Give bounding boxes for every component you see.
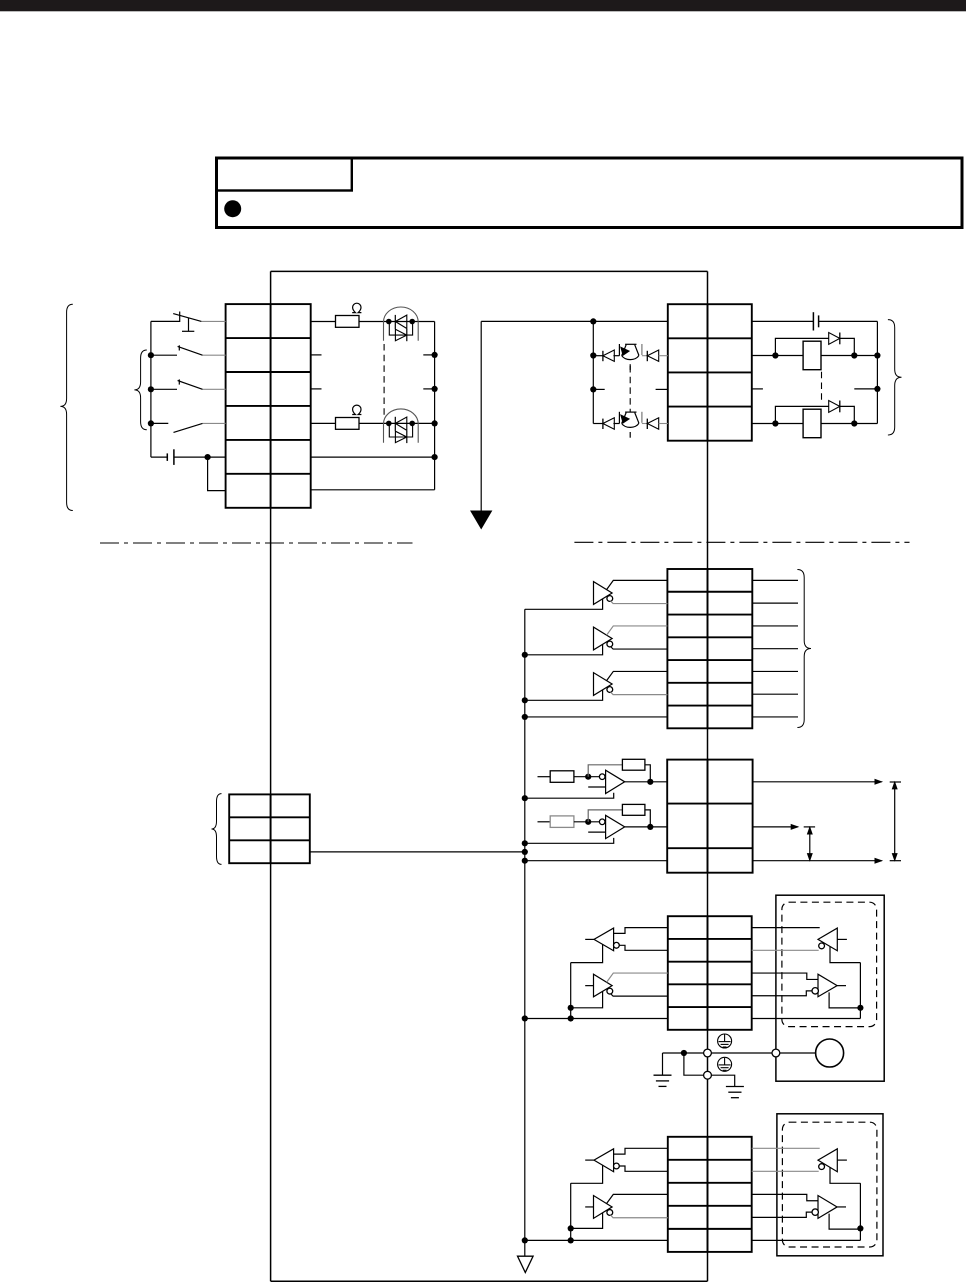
signal common bus (vertical): [524, 609, 526, 1256]
junction dot load r2: [874, 352, 880, 358]
PE terminal symbol 1: [718, 1034, 732, 1048]
rs2 left vertical: [570, 1183, 572, 1240]
label R2 ohm: [352, 405, 361, 414]
output common vertical: [592, 321, 594, 423]
switch LSN tick: [178, 379, 180, 384]
junction dot bus LG2: [522, 858, 528, 864]
junction dot rs1 c: [857, 1005, 863, 1011]
internal bus right vertical: [434, 322, 436, 490]
opto-coupler PC1: [384, 307, 419, 341]
junction dot rs2 a: [568, 1225, 574, 1231]
relay RA2 with diode: [752, 401, 878, 438]
switch SON blade: [174, 423, 203, 432]
wire LSP left: [151, 354, 177, 356]
wire out r4 b: [613, 423, 619, 425]
rs2 right vertical: [859, 1183, 861, 1240]
load bus vertical: [876, 321, 878, 423]
driver SDP/SDN: [571, 973, 668, 1008]
dashed continuation (outputs): [629, 366, 631, 412]
diode D2 (clamp): [646, 351, 648, 361]
wire LSP to block: [203, 354, 226, 356]
junction dot out r2: [590, 352, 596, 358]
wire out r4 c: [642, 423, 647, 425]
terminal block CN3 analog: [667, 760, 752, 873]
PE terminal symbol 2: [718, 1057, 732, 1071]
arrow LG: [875, 858, 882, 863]
CN3 row line 2: [667, 847, 752, 849]
junction dot bus rs2: [522, 1237, 528, 1243]
terminal block CN2 comm (5 rows): [668, 1137, 752, 1252]
brace output devices: [888, 320, 902, 435]
junction dot PE: [681, 1050, 687, 1056]
servo amplifier outline right wire: [707, 271, 709, 1281]
junction dot r5: [432, 454, 438, 460]
wire out r2 c: [642, 355, 647, 357]
terminal block CN1B (output): [668, 304, 752, 441]
wire MO2 out: [753, 826, 798, 828]
stub encoder row2 right: [752, 602, 798, 604]
arrow MO1: [875, 780, 882, 785]
junction dot common: [148, 420, 154, 426]
connector pin PE1: [704, 1049, 712, 1057]
junction dot load r3: [874, 386, 880, 392]
junction dot bus LB: [522, 652, 528, 658]
battery negative plate: [166, 453, 168, 461]
dashed continuation (loads): [821, 372, 823, 401]
stub encoder row1 right: [752, 579, 798, 581]
receiver RDP/RDN: [571, 928, 668, 963]
output transistor Q2: [619, 412, 642, 438]
battery 24V plate short: [818, 315, 820, 327]
diode D3 (clamp): [602, 419, 604, 429]
stub encoder row4 right: [752, 648, 798, 650]
note box title cell: [217, 158, 352, 191]
arrow MO2: [791, 825, 798, 830]
wire SON left: [151, 422, 168, 424]
stub out r3 left: [593, 388, 604, 390]
wire MO1 out: [753, 781, 882, 783]
wire EMG left: [151, 320, 180, 322]
stub row2 to bus: [423, 354, 434, 356]
wire to earth 1: [662, 1053, 664, 1075]
separation dash-dot line right: [574, 541, 909, 543]
wire LSN left: [151, 388, 177, 390]
receiver 2 RDP/RDN: [571, 1148, 668, 1183]
junction dot LSN: [148, 386, 154, 392]
wire to power arrow: [480, 321, 482, 511]
stub load r3 left: [752, 388, 763, 390]
terminal block CN3 small (3 rows): [229, 794, 310, 863]
stub encoder row3 right: [752, 625, 798, 627]
brace switch sub-group: [134, 350, 146, 430]
switch EMG contact bar: [179, 312, 181, 323]
line driver LB/LBR: [525, 626, 668, 655]
servo amplifier outline bottom wire: [271, 1280, 708, 1282]
diode D1 (clamp): [602, 351, 604, 361]
dimension arrow MO1-LG: [890, 782, 901, 861]
junction dot rs2 b: [568, 1237, 574, 1243]
stub row3 to bus: [423, 388, 434, 390]
note box outer frame: [217, 158, 963, 228]
driver 2 SDP/SDN: [571, 1194, 668, 1228]
junction dot DOCOM: [590, 318, 596, 324]
brace analog monitor: [212, 794, 222, 865]
junction dot rs2 c: [857, 1225, 863, 1231]
terminal block CN3 comm (5 rows): [668, 916, 752, 1030]
wire GND row5: [525, 1017, 668, 1019]
wire LG row7: [525, 716, 668, 718]
junction dot bus LG: [522, 714, 528, 720]
junction dot r3: [432, 386, 438, 392]
stub row2 from block: [311, 354, 322, 356]
wire row4 to resistor: [311, 422, 336, 424]
relay RA1 with diode: [752, 333, 878, 370]
controller driver 1: [752, 973, 861, 1008]
signal ground open arrow: [518, 1256, 534, 1272]
wire PE link: [684, 1053, 704, 1075]
arrow 24VDC (filled): [471, 511, 492, 529]
wire GND2 row5: [525, 1239, 668, 1241]
page header bar: [0, 0, 966, 11]
controller driver 2: [752, 1194, 861, 1229]
junction dot r4: [432, 420, 438, 426]
wire row5 to bus: [311, 456, 435, 458]
wire brake power a: [752, 320, 814, 322]
connector pin PE2: [704, 1071, 712, 1079]
switch EMG actuator stem: [188, 318, 190, 331]
terminal block CN1A (input): [226, 304, 311, 508]
switch LSP tick: [178, 345, 180, 350]
rs1 right vertical: [859, 963, 861, 1019]
junction dot battery: [205, 454, 211, 460]
note bullet: [224, 200, 241, 217]
op-amp U2 (MO2): [522, 804, 668, 846]
wire GND row5 right: [752, 1017, 861, 1019]
wire LG analog: [525, 860, 667, 862]
dimension arrow MO2-LG: [804, 827, 815, 860]
diode D4 (clamp): [646, 419, 648, 429]
switch LSN blade: [178, 381, 203, 390]
battery positive plate: [173, 449, 175, 465]
wire out r2 a: [593, 355, 603, 357]
servo amplifier outline top wire: [271, 270, 708, 272]
input common wire (vertical): [150, 321, 152, 457]
wire LG out: [753, 860, 882, 862]
protective earth 2: [726, 1087, 744, 1098]
output transistor Q1: [619, 344, 642, 370]
CN3 row line 1: [667, 803, 752, 805]
wire battery left: [151, 456, 167, 458]
wire battery to SG row: [208, 457, 226, 491]
wire PE1 to box: [711, 1052, 772, 1054]
opto-coupler PC2: [384, 409, 419, 443]
wire PE2 right: [711, 1075, 734, 1086]
wire small block to bus: [310, 851, 525, 853]
operation panel circle: [816, 1039, 844, 1067]
stub encoder row7 right: [752, 716, 798, 718]
connector pin controller: [772, 1049, 780, 1057]
switch EMG actuator bar: [182, 330, 194, 332]
line driver LZ/LZR: [525, 671, 668, 700]
junction dot rs1 a: [568, 1005, 574, 1011]
junction dot r2: [432, 352, 438, 358]
resistor R2: [336, 418, 360, 430]
controller dashed block 2: [782, 1122, 877, 1247]
op-amp U1 (MO1): [522, 759, 668, 801]
wire PE1 left: [663, 1052, 704, 1054]
switch EMG blade: [173, 314, 201, 322]
stub load r3 right: [854, 388, 877, 390]
wire out r4 a: [593, 423, 603, 425]
controller receiver 1: [752, 928, 861, 963]
wire R2 to opto: [359, 422, 435, 424]
controller receiver 2: [752, 1148, 861, 1183]
junction dot rs1 b: [568, 1015, 574, 1021]
wire out r4 d: [659, 423, 668, 425]
wire R1 to opto: [359, 321, 435, 323]
wire battery to block: [174, 456, 226, 458]
wire DICOM to resistor: [311, 321, 336, 323]
controller box 2: [777, 1114, 883, 1256]
line driver LA/LAR: [525, 580, 668, 609]
battery 24V plate long: [812, 312, 814, 330]
wire row6 to bus: [311, 489, 435, 491]
junction dot bus rs1: [522, 1015, 528, 1021]
protective earth 1: [654, 1075, 672, 1086]
stub encoder row5 right: [752, 670, 798, 672]
resistor R1: [336, 316, 360, 328]
wire brake power b: [819, 320, 878, 322]
brace encoder outputs: [797, 570, 811, 728]
switch LSP blade: [178, 346, 203, 355]
controller box (personal computer): [776, 895, 884, 1081]
wire LSN to block: [203, 388, 226, 390]
stub encoder row6 right: [752, 693, 798, 695]
junction dot bus LZ: [522, 697, 528, 703]
wire out r2 d: [659, 355, 668, 357]
wire DOCOM top: [481, 320, 668, 322]
stub row3 from block: [311, 388, 322, 390]
wire pin to panel: [780, 1052, 816, 1054]
separation dash-dot line left: [100, 542, 413, 544]
servo amplifier outline left wire: [270, 271, 272, 1281]
wire SON to block: [203, 422, 226, 424]
junction dot bus mid: [522, 849, 528, 855]
dashed continuation (inputs): [383, 344, 385, 416]
rs1 left vertical: [570, 963, 572, 1019]
junction dot out r3: [590, 386, 596, 392]
junction dot LSP: [148, 352, 154, 358]
controller dashed block: [782, 902, 877, 1026]
terminal block CN1A encoder (7 rows): [667, 569, 752, 728]
label R1 ohm: [352, 303, 361, 312]
wire GND2 row5 right: [752, 1239, 861, 1241]
wire out r2 b: [613, 355, 619, 357]
wire EMG to block: [201, 320, 225, 322]
stub out r3 right: [656, 388, 668, 390]
brace input group (left): [60, 304, 72, 510]
